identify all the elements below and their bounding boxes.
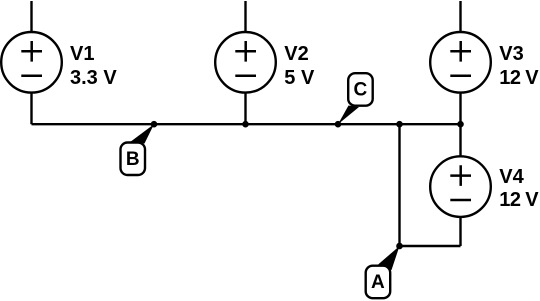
wire V3 bottom lead to bus xyxy=(459,93,461,125)
node label C pointer wedge xyxy=(338,106,359,125)
junction dot V2-bus xyxy=(242,121,249,128)
junction dot V3-V4-bus xyxy=(457,121,464,128)
junction dot node B xyxy=(151,121,158,128)
wire top lead V1 xyxy=(30,1,32,32)
node label A pointer wedge xyxy=(377,246,400,270)
wire bottom lead V2 xyxy=(244,93,246,125)
node label B pointer wedge xyxy=(130,124,155,143)
svg-text:12 V: 12 V xyxy=(499,189,539,211)
V2 plus sign xyxy=(235,41,256,62)
wire vertical to node A xyxy=(398,124,400,246)
V3 minus sign xyxy=(450,74,471,77)
svg-text:12 V: 12 V xyxy=(499,67,539,89)
node label C box xyxy=(348,73,373,106)
V2 minus sign xyxy=(235,74,256,77)
wire horizontal bus xyxy=(32,123,461,125)
svg-text:A: A xyxy=(371,272,385,293)
V4 minus sign xyxy=(450,199,471,202)
voltage source V3 circle xyxy=(430,32,491,93)
svg-text:V4: V4 xyxy=(499,166,524,188)
junction dot node C xyxy=(335,121,342,128)
V1 minus sign xyxy=(21,74,42,77)
voltage source V1 circle xyxy=(1,32,62,93)
svg-text:B: B xyxy=(126,149,140,170)
voltage source V2 circle xyxy=(215,32,276,93)
svg-text:C: C xyxy=(354,80,368,101)
svg-text:V1: V1 xyxy=(70,43,94,65)
V4 plus sign xyxy=(450,165,471,186)
wire V4 top lead from bus xyxy=(459,124,461,156)
V3 plus sign xyxy=(450,41,471,62)
voltage source V4 circle xyxy=(430,156,491,217)
svg-text:5 V: 5 V xyxy=(284,67,315,89)
junction dot node A xyxy=(396,243,403,250)
svg-text:V3: V3 xyxy=(499,43,523,65)
wire bottom lead V1 xyxy=(30,93,32,125)
svg-text:V2: V2 xyxy=(284,43,308,65)
wire V4 bottom lead xyxy=(459,217,461,246)
node label B box xyxy=(121,143,146,176)
node label A box xyxy=(366,266,391,299)
svg-text:3.3 V: 3.3 V xyxy=(70,67,117,89)
junction dot bus-A wire xyxy=(396,121,403,128)
wire top lead V3 xyxy=(459,1,461,32)
V1 plus sign xyxy=(21,41,42,62)
wire bottom horizontal A to V4 xyxy=(400,245,461,247)
wire top lead V2 xyxy=(244,1,246,32)
